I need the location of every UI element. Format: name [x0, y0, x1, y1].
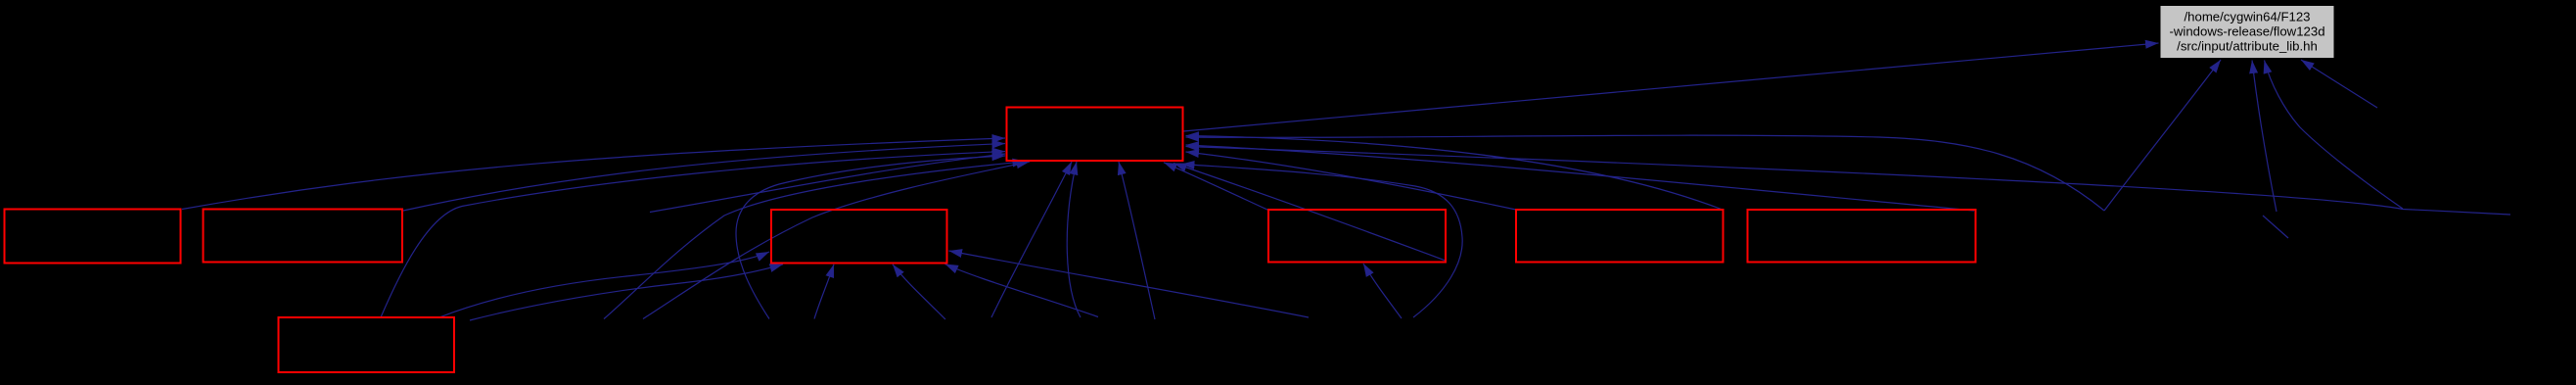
wire row3 to N3 right edge — [949, 251, 1310, 317]
node json — [279, 317, 455, 372]
node N6 — [1748, 210, 1976, 263]
node gray title box — [2161, 6, 2334, 58]
wire row3 to N3 bottom b — [893, 265, 945, 319]
wire row3 to N3 bottom-right corner — [945, 265, 1099, 317]
node N3 — [771, 210, 947, 264]
node N2 — [204, 210, 403, 263]
node N4 — [1268, 210, 1446, 263]
wire center to gray — [1183, 43, 2159, 131]
wire row3 to N4 bottom — [1363, 264, 1402, 318]
node N1 — [5, 210, 181, 264]
wire N1 to center — [182, 138, 1005, 210]
wire f3 far hidden to center right — [1186, 147, 2511, 216]
wire N4 bottom corner to center — [1173, 164, 1446, 262]
wire f1 N5 top-right to center right — [1186, 136, 1724, 211]
wire paren curve row3 around N4 to center — [1181, 165, 1462, 318]
wire steep row3 to center bottom — [1119, 162, 1155, 319]
wire row3 to N3 bottom a — [814, 265, 834, 319]
wire N2 to center — [403, 144, 1005, 212]
wire G2 hidden to gray bottom — [2104, 60, 2221, 211]
wire json to N3 left — [438, 252, 770, 318]
svg-text:/home/cygwin64/F123: /home/cygwin64/F123 — [2184, 10, 2310, 24]
wire G3 hidden to gray bottom — [2252, 61, 2277, 213]
svg-text:-windows-release/flow123d: -windows-release/flow123d — [2169, 24, 2324, 39]
wire json to center — [381, 152, 1005, 318]
wire short hidden arrow — [2263, 216, 2288, 238]
wire curve around N3 to center — [736, 156, 1005, 319]
wire G5 hidden to gray bottom — [2301, 60, 2377, 108]
wire N5 top-left to center right — [1186, 152, 1517, 210]
wire S1 row3 to center bottom — [604, 162, 1026, 319]
wire curve2 row3 to center bottom — [1067, 162, 1081, 317]
node N5 — [1516, 210, 1724, 263]
wire row3 to N3 bottom-left — [470, 265, 783, 320]
wire G4 hidden to gray bottom — [2265, 61, 2404, 210]
wire N6 top-right to center right — [1186, 145, 1975, 211]
svg-text:/src/input/attribute_lib.hh: /src/input/attribute_lib.hh — [2177, 38, 2318, 53]
wire S2 row3 to center bottom — [643, 162, 1030, 319]
node center — [1007, 108, 1183, 162]
wire N4 top-left to center corner — [1164, 163, 1268, 211]
wire f2 far hidden to center right — [1186, 135, 2105, 211]
wire hidden node to center — [650, 154, 1005, 213]
wire P row3 to center bottom — [991, 162, 1072, 317]
